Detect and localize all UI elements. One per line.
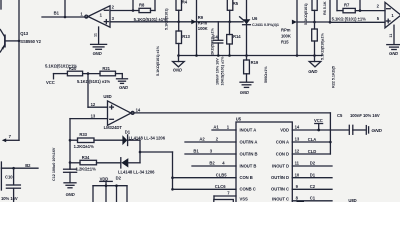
- svg-text:11: 11: [389, 34, 393, 38]
- resistor R5: [227, 0, 238, 23]
- wire ground bus: [177, 54, 322, 57]
- svg-text:D1: D1: [125, 129, 131, 134]
- svg-text:C2: C2: [310, 184, 316, 189]
- svg-text:R21: R21: [102, 66, 110, 71]
- svg-text:13: 13: [91, 113, 96, 118]
- capacitor C10: [1, 168, 20, 202]
- svg-text:R34: R34: [82, 155, 90, 160]
- svg-text:1.2KΩ±1%: 1.2KΩ±1%: [76, 167, 96, 172]
- shunt reference U6 CJ431: [240, 0, 279, 56]
- power VCC (R20 feed): [46, 74, 67, 86]
- svg-text:R7: R7: [344, 2, 350, 7]
- op-amp U8A (output faces left): [85, 4, 115, 27]
- wire junction to U8D pin 12: [88, 74, 108, 108]
- capacitor C5: [337, 113, 380, 134]
- IC U5 analog switch: [236, 117, 292, 204]
- power VCC (IC U5): [314, 118, 323, 131]
- svg-text:GND: GND: [371, 128, 382, 134]
- svg-text:OUT/IN C: OUT/IN C: [271, 187, 289, 192]
- op-amp U8D: [103, 94, 134, 130]
- resistor R33: [70, 132, 122, 149]
- wire pin 9 node C2: [292, 184, 332, 189]
- svg-text:GND: GND: [240, 90, 249, 95]
- svg-text:LM324DT: LM324DT: [104, 125, 123, 130]
- ground (R21): [117, 79, 129, 90]
- svg-text:CJ431 0.5%(4)1: CJ431 0.5%(4)1: [252, 23, 279, 27]
- ground stub bottom edge: [297, 201, 305, 203]
- svg-text:R22 5.1KΩ(5: R22 5.1KΩ(5: [332, 66, 336, 88]
- svg-text:U5: U5: [236, 117, 242, 122]
- potentiometer R9 (RPm 100K): [191, 0, 214, 56]
- wire pin 11 node D2: [292, 161, 332, 166]
- node B2 stub with capacitor C10: [1, 162, 38, 190]
- svg-text:12: 12: [91, 102, 96, 107]
- svg-text:C10: C10: [5, 175, 13, 180]
- svg-text:5.1KΩ(5101): 5.1KΩ(5101): [304, 3, 308, 25]
- svg-text:2KΩ(5901) ±1%: 2KΩ(5901) ±1%: [211, 27, 215, 55]
- svg-text:GND: GND: [308, 69, 317, 74]
- wire pin13 net vertical (R33/R34 feed): [69, 119, 72, 169]
- wire op-amp pin3 horizontal net: [110, 17, 243, 22]
- capacitor C4: [212, 22, 222, 56]
- wire pin 12 CLD: [292, 149, 330, 154]
- svg-text:INOUT B: INOUT B: [240, 163, 257, 168]
- svg-text:B2: B2: [209, 161, 215, 166]
- svg-text:14: 14: [295, 125, 300, 130]
- wire pin 3 node B1: [185, 149, 236, 154]
- svg-text:CLC6: CLC6: [215, 184, 226, 189]
- svg-text:VSS: VSS: [240, 196, 248, 201]
- ground flag (C5): [366, 126, 382, 135]
- svg-text:5.1KΩ(510)±1%: 5.1KΩ(510)±1%: [321, 32, 325, 60]
- ground (bus left triangle): [173, 56, 185, 73]
- wire pin 1 node A1: [212, 125, 236, 130]
- svg-text:GND: GND: [173, 68, 182, 73]
- resistor R20: [45, 63, 100, 75]
- svg-text:C5: C5: [337, 113, 343, 118]
- wire pin 14 VDD with VCC and C5: [292, 125, 349, 130]
- resistor R4: [165, 0, 188, 30]
- svg-text:U6: U6: [252, 16, 258, 21]
- ground (bus right triangle): [308, 56, 321, 75]
- wire pin 5 node CLB: [173, 172, 237, 177]
- svg-text:GND: GND: [66, 192, 75, 197]
- svg-text:R4: R4: [182, 0, 188, 5]
- diode D1 LL4148: [122, 129, 165, 145]
- resistor R14: [227, 22, 242, 56]
- svg-text:A2: A2: [199, 137, 205, 142]
- resistor R13: [156, 22, 190, 76]
- resistor R6: [304, 0, 327, 25]
- svg-text:R14: R14: [233, 34, 241, 39]
- svg-text:CLB5: CLB5: [216, 172, 227, 177]
- wire bottom rail (cut off): [93, 184, 127, 202]
- resistor R34: [70, 155, 121, 172]
- wire U8D output pin 14 to control column: [131, 108, 332, 154]
- capacitor C12: [52, 147, 77, 183]
- svg-text:VDD: VDD: [280, 127, 289, 132]
- IC U5 right pin texts: [271, 127, 289, 201]
- wire diode cathodes junction to CLB/CLC: [139, 140, 174, 190]
- svg-text:10% 16V: 10% 16V: [1, 196, 18, 201]
- power VDD flag on bottom rail: [100, 176, 113, 185]
- svg-text:100K: 100K: [198, 26, 208, 31]
- svg-text:INOUT C: INOUT C: [272, 196, 289, 201]
- ground (R19 earth): [240, 82, 253, 95]
- svg-text:5.1KΩ (5101) ±1%: 5.1KΩ (5101) ±1%: [332, 17, 367, 22]
- svg-text:GND: GND: [389, 51, 398, 56]
- svg-text:100nF 10% 16V: 100nF 10% 16V: [350, 113, 380, 118]
- wire to op-amp U?B pin5: [329, 0, 385, 24]
- svg-text:GND: GND: [119, 85, 128, 90]
- svg-text:Q13: Q13: [20, 31, 28, 36]
- svg-text:5.1KΩ(5101)±1%: 5.1KΩ(5101)±1%: [45, 63, 77, 68]
- svg-text:A1: A1: [213, 125, 219, 130]
- svg-text:CON A: CON A: [276, 139, 289, 144]
- wire pin 2 node A2: [185, 137, 236, 142]
- svg-text:OUT/IN A: OUT/IN A: [240, 139, 258, 144]
- svg-text:CON D: CON D: [276, 151, 289, 156]
- svg-text:C1: C1: [310, 195, 316, 200]
- svg-text:D1: D1: [310, 172, 316, 177]
- svg-text:12: 12: [295, 149, 300, 154]
- svg-text:VCC: VCC: [46, 80, 55, 85]
- svg-text:5.1KΩ(5101) ±1%: 5.1KΩ(5101) ±1%: [134, 17, 167, 22]
- svg-text:VCC: VCC: [314, 118, 323, 123]
- svg-text:10: 10: [295, 172, 300, 177]
- svg-text:RPm: RPm: [198, 21, 208, 26]
- svg-text:1.2KΩ±1%: 1.2KΩ±1%: [74, 144, 94, 149]
- wire pin 10 node D1: [292, 172, 332, 177]
- svg-text:11: 11: [94, 33, 98, 37]
- wire pin 6 node CLC: [173, 184, 237, 189]
- svg-text:500Ω±1%: 500Ω±1%: [264, 66, 268, 83]
- svg-text:CONB C: CONB C: [240, 187, 256, 192]
- svg-text:CLD: CLD: [308, 149, 316, 154]
- svg-text:R9: R9: [198, 15, 204, 20]
- wire Q13 base to vertical net: [6, 40, 21, 43]
- transistor Q13: [0, 30, 41, 53]
- svg-text:100K: 100K: [281, 34, 291, 39]
- svg-text:5.1KΩ(5101) ±1%: 5.1KΩ(5101) ±1%: [77, 79, 110, 84]
- svg-text:INOUT D: INOUT D: [272, 163, 289, 168]
- svg-text:B2: B2: [25, 163, 31, 168]
- wire edge stub top-left: [0, 0, 2, 9]
- svg-text:SS8550 Y2: SS8550 Y2: [20, 39, 41, 44]
- svg-text:D2: D2: [116, 175, 122, 180]
- wire vertical net left (to pin 7 stub): [2, 0, 19, 142]
- wire pin 4 node B2: [192, 161, 236, 166]
- svg-text:LL4148 LL-34 1206: LL4148 LL-34 1206: [118, 170, 155, 175]
- resistor R8: [139, 0, 155, 13]
- IC U5 left pin texts: [240, 127, 258, 201]
- svg-text:B1: B1: [193, 149, 199, 154]
- svg-text:R6 5.1K: R6 5.1K: [323, 1, 327, 15]
- svg-text:5.1KΩ(5101) ±1%: 5.1KΩ(5101) ±1%: [156, 45, 160, 76]
- diode D2 LL4148: [116, 158, 156, 181]
- svg-text:R33: R33: [79, 132, 87, 137]
- svg-text:CON B: CON B: [240, 175, 253, 180]
- resistor R21: [77, 66, 122, 84]
- resistor R12: [312, 22, 325, 60]
- ground (C12 earth): [64, 183, 76, 197]
- rotated value labels below bus (C4 / R14): [215, 56, 224, 86]
- svg-text:D2: D2: [310, 161, 316, 166]
- svg-text:R19: R19: [251, 60, 259, 65]
- svg-text:C12 100u0 10%16V: C12 100u0 10%16V: [52, 147, 56, 181]
- svg-text:14: 14: [136, 108, 141, 113]
- svg-text:INOUT A: INOUT A: [240, 127, 257, 132]
- wire pin 8 node C1: [292, 195, 332, 200]
- svg-text:B1: B1: [54, 11, 60, 16]
- resistor R7: [337, 0, 385, 13]
- wire U8D pin 13: [70, 113, 108, 118]
- svg-text:R8: R8: [139, 3, 145, 8]
- svg-text:R15: R15: [281, 40, 289, 45]
- wire op-amp pin2 with feedback taps: [110, 0, 139, 12]
- node B1 output wire of op-amp: [42, 0, 88, 18]
- svg-text:11: 11: [295, 161, 300, 166]
- svg-text:U8D: U8D: [348, 198, 356, 202]
- wire pin 13 CLA: [292, 137, 330, 142]
- svg-text:GND: GND: [93, 51, 102, 56]
- svg-text:C4: C4: [212, 34, 218, 39]
- svg-text:100nF 10% 16V: 100nF 10% 16V: [215, 58, 219, 85]
- svg-text:13: 13: [295, 137, 300, 142]
- op-amp U?B (top right, clipped): [377, 2, 400, 28]
- potentiometer R15 (RPm 100K): [281, 0, 330, 56]
- ground (op-amp U8A pin 11): [91, 27, 107, 56]
- svg-text:VDD: VDD: [100, 176, 109, 181]
- svg-text:LL4148 LL-34 1206: LL4148 LL-34 1206: [129, 136, 166, 141]
- svg-text:5.1KΩ(5101): 5.1KΩ(5101): [165, 8, 169, 30]
- svg-text:U8D: U8D: [103, 94, 111, 99]
- svg-text:CLA: CLA: [308, 137, 316, 142]
- svg-text:10KΩ(5101) ±1%: 10KΩ(5101) ±1%: [220, 56, 224, 86]
- svg-text:OUT/IN D: OUT/IN D: [271, 175, 289, 180]
- svg-text:R5: R5: [233, 1, 239, 6]
- svg-text:OUT/IN B: OUT/IN B: [240, 151, 258, 156]
- resistor R19: [244, 56, 268, 84]
- svg-text:RPm: RPm: [281, 28, 291, 33]
- svg-text:R13: R13: [182, 34, 190, 39]
- wire pin 7 VSS: [214, 191, 236, 205]
- ground (op-amp U?B pin 11): [387, 25, 400, 56]
